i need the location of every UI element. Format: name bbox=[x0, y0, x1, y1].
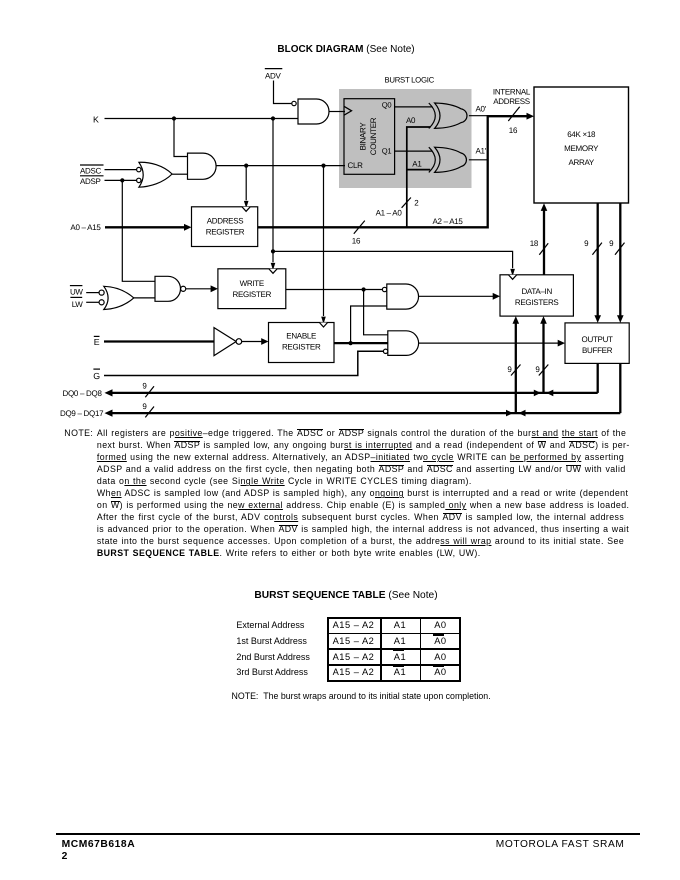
table row line 3 (thick) bbox=[327, 664, 462, 666]
svg-text:ADSC: ADSC bbox=[80, 166, 102, 175]
wire ADSP drop to NAND2 top input bbox=[122, 180, 155, 281]
node write output junction bbox=[362, 287, 366, 291]
wire enable output riser to NAND3 bbox=[351, 306, 387, 343]
svg-text:DQ9 – DQ17: DQ9 – DQ17 bbox=[60, 409, 104, 418]
signal ADSC label bbox=[80, 165, 104, 175]
svg-text:REGISTER: REGISTER bbox=[206, 227, 245, 236]
gate OR2 (UW/LW NOR inputs) bbox=[99, 286, 134, 309]
wire XOR2 output A1' bbox=[469, 159, 488, 161]
signal ADV label bbox=[265, 69, 283, 81]
label A0' bbox=[476, 104, 487, 113]
svg-text:16: 16 bbox=[352, 237, 361, 246]
bus data-in to memory (18) bbox=[541, 203, 548, 316]
table row line 1 (thin) bbox=[327, 633, 462, 635]
label A1 bbox=[412, 159, 422, 168]
svg-text:LW: LW bbox=[72, 300, 84, 309]
svg-text:REGISTERS: REGISTERS bbox=[515, 298, 559, 307]
signal LW label bbox=[70, 297, 83, 309]
buffer U8 OUTPUT BUFFER bbox=[565, 323, 629, 364]
svg-text:2: 2 bbox=[414, 199, 419, 208]
svg-text:ARRAY: ARRAY bbox=[568, 158, 594, 167]
node DQ0 junction arrows bbox=[534, 390, 554, 397]
svg-text:9: 9 bbox=[142, 402, 147, 411]
note paragraph lines bbox=[97, 428, 624, 560]
svg-text:E: E bbox=[94, 337, 100, 347]
bus memory to output buffer right (9) bbox=[617, 203, 624, 323]
gate NAND4 output enable bbox=[383, 331, 418, 356]
note block label bbox=[64, 428, 93, 438]
overline bar A1 row 4 bbox=[393, 665, 404, 667]
svg-text:WRITE: WRITE bbox=[240, 279, 264, 288]
svg-text:Q1: Q1 bbox=[382, 147, 392, 156]
svg-text:9: 9 bbox=[507, 365, 512, 374]
bus width slash 9 left bbox=[584, 239, 602, 255]
svg-text:COUNTER: COUNTER bbox=[369, 117, 378, 155]
bus DQ9-DQ17 line bbox=[60, 409, 620, 418]
burst sequence table title bbox=[0, 590, 680, 601]
overline bar A0 row 4 bbox=[433, 665, 444, 667]
label A0 bbox=[406, 116, 416, 125]
table cells row 2 bbox=[327, 636, 381, 646]
signal K label bbox=[93, 114, 99, 124]
svg-text:ADV: ADV bbox=[265, 72, 282, 81]
wire K drop to AND2 bbox=[174, 119, 188, 157]
wire U1 output to counter clock bbox=[329, 111, 345, 113]
inverter INV1 bbox=[214, 328, 242, 356]
gate NAND3 data-in enable bbox=[382, 284, 418, 309]
label A1' bbox=[476, 147, 487, 156]
register U6 ENABLE REGISTER bbox=[269, 323, 335, 363]
signal E label bbox=[94, 336, 100, 347]
bus width slash 18 bbox=[530, 239, 549, 255]
label A1 - A0 bbox=[376, 209, 403, 218]
wire ADSC to OR1 bbox=[105, 169, 137, 171]
gate XOR2 bbox=[429, 147, 467, 172]
wire NAND2 output to write register bbox=[186, 285, 218, 292]
gate NAND2 write clock bbox=[155, 276, 186, 301]
svg-text:REGISTER: REGISTER bbox=[282, 342, 321, 351]
wire K line bbox=[105, 118, 299, 120]
wire K drop to clock node bbox=[272, 119, 274, 252]
bus width slash 9 riser left bbox=[507, 365, 520, 376]
wire enable register output bbox=[334, 342, 388, 344]
table note bbox=[232, 691, 491, 701]
svg-text:16: 16 bbox=[509, 126, 518, 135]
table row line 2 (thick) bbox=[327, 648, 462, 650]
page title bbox=[0, 44, 680, 55]
wire NAND3 output to data-in registers bbox=[419, 293, 500, 300]
svg-text:A1 – A0: A1 – A0 bbox=[376, 209, 403, 218]
bus DQ0-DQ8 line bbox=[63, 389, 598, 398]
svg-text:9: 9 bbox=[584, 239, 589, 248]
svg-text:REGISTER: REGISTER bbox=[233, 290, 272, 299]
svg-text:64K ×18: 64K ×18 bbox=[567, 130, 596, 139]
svg-text:A0′: A0′ bbox=[476, 104, 487, 113]
bus width slash 9 right bbox=[609, 239, 624, 255]
bus width slash 9 DQ9 bbox=[142, 402, 154, 418]
svg-text:UW: UW bbox=[70, 288, 83, 297]
wire K clock drop to write register bbox=[271, 251, 276, 270]
table cells row 1 bbox=[327, 620, 381, 630]
wire Q0 to XOR1 bbox=[395, 106, 433, 108]
wire output buffer drop to DQ0 line bbox=[597, 363, 599, 393]
signal UW label bbox=[70, 286, 84, 297]
bus width slash 16 on A0-A15 output bbox=[352, 221, 365, 246]
memory U4 64K x18 MEMORY ARRAY bbox=[534, 87, 629, 203]
svg-text:A2 – A15: A2 – A15 bbox=[433, 217, 464, 226]
table row labels bbox=[236, 620, 304, 630]
svg-text:ENABLE: ENABLE bbox=[286, 332, 316, 341]
svg-text:18: 18 bbox=[530, 239, 539, 248]
svg-text:BUFFER: BUFFER bbox=[582, 346, 613, 355]
register U3 ADDRESS REGISTER bbox=[192, 207, 258, 247]
register U2 BINARY COUNTER bbox=[344, 99, 395, 175]
svg-text:9: 9 bbox=[142, 382, 147, 391]
bus memory to output buffer left (9) bbox=[594, 203, 601, 323]
svg-text:A1′: A1′ bbox=[476, 147, 487, 156]
svg-text:G: G bbox=[93, 371, 100, 381]
svg-text:K: K bbox=[93, 114, 99, 124]
wire write output drop to NAND4 bbox=[364, 290, 388, 335]
table cells row 4 bbox=[327, 667, 381, 677]
register U7 DATA-IN REGISTERS bbox=[500, 275, 573, 316]
gate AND2 address clock bbox=[188, 153, 217, 179]
bus address register output to internal address bbox=[258, 113, 534, 228]
bus width slash 9 riser right bbox=[535, 365, 548, 376]
node K junction 1 bbox=[172, 116, 176, 120]
wire UW to OR2 bbox=[86, 292, 99, 294]
bus DQ0 riser to data-in registers bbox=[540, 316, 547, 393]
svg-text:OUTPUT: OUTPUT bbox=[582, 335, 614, 344]
svg-text:BURST LOGIC: BURST LOGIC bbox=[385, 76, 435, 85]
svg-text:A0: A0 bbox=[406, 116, 416, 125]
label A2 - A15 bbox=[433, 217, 464, 226]
node clock line junction A bbox=[244, 164, 248, 168]
gate U1 clock AND (ADV inverted input) bbox=[292, 99, 329, 124]
wire drop to address register clock bbox=[244, 166, 249, 209]
wire LW to OR2 bbox=[86, 301, 99, 303]
signal G label bbox=[93, 369, 100, 381]
svg-text:ADDRESS: ADDRESS bbox=[207, 216, 244, 225]
svg-text:MEMORY: MEMORY bbox=[564, 144, 599, 153]
table column line 2 bbox=[420, 617, 422, 682]
node clock line junction B bbox=[321, 164, 325, 168]
svg-text:DQ0 – DQ8: DQ0 – DQ8 bbox=[63, 389, 103, 398]
wire AND2 output to counter CLR bbox=[216, 165, 345, 167]
wire output buffer drop to DQ9 line bbox=[619, 363, 621, 413]
signal ADSP label bbox=[80, 176, 104, 186]
wire ADSP to OR1 bbox=[105, 179, 137, 181]
wire E to inverter bbox=[104, 340, 214, 342]
table cells row 3 bbox=[327, 652, 381, 662]
footer part number bbox=[62, 839, 136, 862]
footer rule bbox=[56, 833, 640, 835]
svg-text:ADSP: ADSP bbox=[80, 177, 101, 186]
wire inverter to enable register bbox=[242, 338, 269, 345]
node DQ9 junction arrows bbox=[506, 410, 526, 417]
gate XOR1 bbox=[429, 103, 467, 128]
footer right text bbox=[0, 839, 625, 850]
overline bar A0 row 2 bbox=[433, 634, 445, 636]
burst logic shaded region bbox=[339, 89, 472, 188]
svg-text:INTERNAL: INTERNAL bbox=[493, 88, 531, 97]
wire write register output bbox=[286, 289, 383, 291]
bus DQ9 riser to data-in registers bbox=[513, 316, 520, 413]
svg-text:9: 9 bbox=[609, 239, 614, 248]
wire OR2 output to NAND2 bbox=[134, 297, 155, 299]
wire NAND4 output to output buffer bbox=[419, 340, 565, 347]
burst logic label bbox=[385, 76, 435, 85]
bus A0-A15 input bbox=[70, 223, 191, 232]
wire XOR1 output A0' bbox=[469, 115, 488, 117]
wire OR1 output to AND2 bbox=[172, 173, 187, 175]
svg-text:CLR: CLR bbox=[348, 161, 364, 170]
label INTERNAL ADDRESS bbox=[493, 88, 531, 107]
svg-text:Q0: Q0 bbox=[382, 101, 392, 110]
overline bar A1 row 3 bbox=[393, 650, 404, 652]
bus A1-A0 riser to XOR gates bbox=[407, 127, 431, 227]
node ADSP junction bbox=[120, 178, 124, 182]
table outer border bbox=[327, 617, 462, 682]
node K clock distribution bbox=[271, 249, 275, 253]
svg-text:9: 9 bbox=[535, 365, 540, 374]
svg-text:A0 – A15: A0 – A15 bbox=[70, 223, 101, 232]
svg-text:A1: A1 bbox=[412, 159, 422, 168]
node K junction 2 bbox=[271, 116, 275, 120]
gate OR1 (ADSC/ADSP NOR inputs) bbox=[137, 162, 173, 187]
svg-text:BINARY: BINARY bbox=[359, 122, 368, 151]
register U5 WRITE REGISTER bbox=[218, 269, 286, 309]
wire ADV to NAND input bubble bbox=[274, 81, 292, 104]
node enable output junction bbox=[349, 341, 353, 345]
wire K clock to data-in registers bbox=[273, 251, 515, 276]
wire G to NAND4 bubble bbox=[104, 351, 383, 375]
svg-text:ADDRESS: ADDRESS bbox=[493, 97, 530, 106]
bus width slash 2 bbox=[402, 198, 420, 208]
wire drop to enable register clock bbox=[321, 166, 326, 324]
svg-text:DATA–IN: DATA–IN bbox=[521, 287, 552, 296]
bus width slash 9 DQ0 bbox=[142, 382, 154, 398]
bus width slash 16 internal address bbox=[508, 107, 519, 135]
table column line 1 bbox=[380, 617, 382, 682]
wire Q1 to XOR2 bbox=[395, 150, 433, 152]
